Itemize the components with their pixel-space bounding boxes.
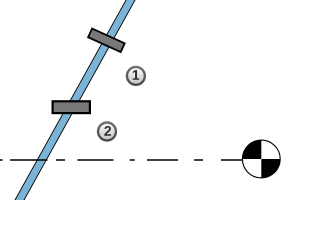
control badge 1 [126, 66, 146, 86]
sweep block 2 (gray rectangle on wall line) [53, 101, 90, 113]
survey point symbol [242, 140, 280, 178]
wire: dash-dot reference line [0, 159, 243, 161]
wire: blue wall line fill [16, 0, 134, 206]
sweep block 1 (gray rectangle on wall line) [88, 29, 125, 53]
control badge 2 [97, 122, 117, 142]
wire: blue wall line edge (black outline band) [16, 0, 134, 206]
